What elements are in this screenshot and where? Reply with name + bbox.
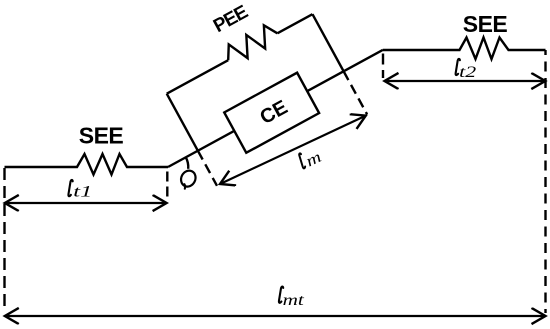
svg-text:SEE: SEE (463, 11, 508, 37)
svg-text:t2: t2 (459, 64, 476, 81)
svg-text:t1: t1 (73, 183, 92, 200)
svg-text:PEE: PEE (210, 2, 251, 37)
svg-text:SEE: SEE (79, 123, 124, 149)
svg-text:m: m (303, 149, 324, 171)
svg-text:mt: mt (283, 292, 305, 309)
